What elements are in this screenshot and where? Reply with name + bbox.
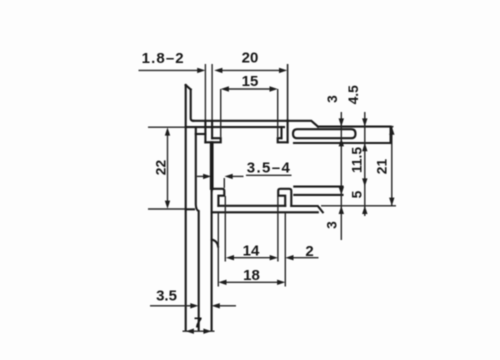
svg-text:7: 7 xyxy=(194,315,202,332)
ext wall-right up xyxy=(211,64,213,120)
arrow 3top up xyxy=(339,138,344,146)
dim 7 line xyxy=(183,330,215,332)
fin right face upper xyxy=(191,90,194,121)
arrow 3top down xyxy=(339,118,344,126)
ext 22 top xyxy=(148,126,186,128)
ext 15 right xyxy=(277,89,279,137)
top channel left wall outer xyxy=(204,121,206,143)
top right arm underside xyxy=(294,142,391,144)
arrow 20 left xyxy=(214,68,222,73)
left outer face (fin + tail left wall) xyxy=(185,85,187,330)
ext 22 bottom xyxy=(148,208,186,210)
top channel right wall outer xyxy=(287,120,289,142)
ext 3.5-4 right xyxy=(223,178,225,188)
arrow 3.5 left-pointing xyxy=(212,303,220,308)
arrow 21 up xyxy=(389,127,394,135)
dim 3.5 bottom right tail xyxy=(217,305,236,307)
T-slot left rib outer face / tail right wall xyxy=(211,189,213,330)
ext 21 top xyxy=(391,126,394,128)
arrow 1.8-2 right xyxy=(197,68,205,73)
svg-text:21: 21 xyxy=(375,159,390,175)
label underline 3.5-4 xyxy=(246,174,292,176)
arrow 4.5 up xyxy=(362,143,367,151)
arrow 3bottom up xyxy=(339,206,344,214)
svg-text:18: 18 xyxy=(243,267,260,284)
dim 21 line xyxy=(391,127,393,206)
svg-text:3: 3 xyxy=(325,95,340,103)
arrow 21 down xyxy=(389,198,394,206)
dim 18 line xyxy=(224,281,281,283)
svg-text:3.5: 3.5 xyxy=(156,288,177,305)
pocket right wall flowing into tail inner wall xyxy=(196,127,199,330)
right chain dim line B (x=365) xyxy=(364,112,366,216)
svg-text:1.8–2: 1.8–2 xyxy=(142,50,185,67)
dim 1.8-2 leader line xyxy=(139,69,201,71)
ext 21 bottom / 5 bottom xyxy=(321,205,396,207)
top right arm right end xyxy=(390,127,392,143)
ext 14 right xyxy=(277,196,279,262)
arrow 14 right xyxy=(270,255,278,260)
T-slot cavity floor (web top) xyxy=(218,205,285,207)
mid wall (between channels) xyxy=(210,142,212,189)
arrow 20 right xyxy=(279,68,287,73)
ext 15 left xyxy=(220,89,222,137)
top channel right wall inner xyxy=(280,127,282,138)
svg-text:11.5: 11.5 xyxy=(350,147,365,173)
arrow 3bottom down xyxy=(339,187,344,195)
arrow 2 left-pointing xyxy=(285,255,293,260)
arm underside step to wall xyxy=(196,133,206,135)
dim 3.5 bottom leader xyxy=(150,305,192,307)
arm slot (closed rounded slot) xyxy=(293,129,356,138)
svg-text:20: 20 xyxy=(242,50,259,67)
svg-text:5: 5 xyxy=(350,190,365,198)
dim 15 line xyxy=(226,88,273,90)
top right arm top surface xyxy=(318,126,391,128)
bottom right strip bottom xyxy=(294,194,342,196)
arrow 7 right xyxy=(203,329,211,334)
arrow 22 down xyxy=(165,201,170,209)
T-slot right rib: cavity wall and head xyxy=(278,189,291,206)
svg-text:14: 14 xyxy=(243,243,260,260)
dim 14 line xyxy=(231,257,273,259)
ext 14 left xyxy=(224,196,226,262)
svg-text:2: 2 xyxy=(305,243,313,260)
ext channel-right up xyxy=(287,64,289,120)
dim 3.5-4 right segment xyxy=(230,175,244,177)
dim 2 tail line xyxy=(294,257,319,259)
dim 3.5-4 left segment xyxy=(197,175,205,177)
top channel right foot xyxy=(278,138,288,142)
ext 18 left xyxy=(217,213,219,287)
pocket bottom xyxy=(186,208,194,210)
arrow 14 left xyxy=(226,255,234,260)
dim 22 line xyxy=(167,132,169,204)
top plate top surface xyxy=(193,121,318,127)
left arm underside / channel ceiling row xyxy=(186,126,284,128)
arrow 3.5-4 left-pointing xyxy=(225,174,233,179)
web bottom line xyxy=(212,211,318,213)
arrow 3.5-4 right-pointing xyxy=(203,174,211,179)
arrow 4.5 down xyxy=(362,118,367,126)
ext wall-left up xyxy=(204,64,206,120)
arrow 3.5 right-pointing xyxy=(190,303,198,308)
T-slot left rib head xyxy=(212,189,225,206)
ext 18 right xyxy=(284,213,286,287)
top channel left foot xyxy=(205,138,220,142)
arrow 18 right xyxy=(277,280,285,285)
web top right portion with wedge tip xyxy=(291,206,323,212)
svg-text:15: 15 xyxy=(242,73,259,90)
fin tip chamfer xyxy=(186,85,191,90)
tail barb (hook toward T-slot ext) xyxy=(212,240,219,247)
arrow 7 left xyxy=(186,329,194,334)
top channel left wall inner xyxy=(211,121,213,138)
bottom right strip top xyxy=(294,186,342,188)
arrow 15 left xyxy=(221,86,229,91)
right chain dim line A (x=341) xyxy=(340,112,342,240)
arrow 5 up xyxy=(362,206,367,214)
svg-text:4.5: 4.5 xyxy=(346,85,361,105)
arrow 11.5 down xyxy=(362,178,367,186)
svg-text:3.5–4: 3.5–4 xyxy=(247,160,292,177)
svg-text:22: 22 xyxy=(153,160,168,176)
arrow 22 up xyxy=(165,127,170,135)
svg-text:3: 3 xyxy=(325,221,340,229)
arrow 15 right xyxy=(270,86,278,91)
dim 20 line xyxy=(219,69,282,71)
arrow 18 left xyxy=(218,280,226,285)
